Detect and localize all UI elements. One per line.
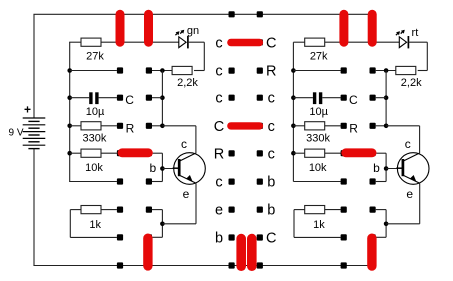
- svg-text:C: C: [266, 231, 276, 247]
- wire 10k row right: [293, 152, 304, 154]
- svg-text:c: c: [215, 175, 222, 191]
- svg-text:rt: rt: [412, 27, 419, 39]
- wire 1k left U right: [294, 210, 341, 238]
- node collector corner: [160, 124, 165, 129]
- contact square rail col1 left: [117, 262, 123, 268]
- wire 2k2 right stub right: [418, 70, 428, 72]
- contact square top rail mid-left: [229, 11, 235, 17]
- wire base vertical net right: [385, 153, 387, 181]
- contact square bottom col1 left: [117, 234, 123, 240]
- jumper wire mid bottom 1: [236, 239, 246, 267]
- node label mid-left row1 c: [215, 35, 222, 51]
- contact square top rail mid-right: [257, 11, 263, 17]
- label 10u right: [309, 106, 328, 118]
- contact square mid col2 row5: [257, 150, 263, 156]
- node collector corner right: [384, 124, 389, 129]
- wire 10k to jumper right: [325, 152, 346, 154]
- node right bus junctions: [291, 68, 296, 155]
- svg-text:2,2k: 2,2k: [401, 77, 422, 89]
- wire 10u row right: [293, 97, 313, 99]
- contact square R row col1 right: [341, 123, 347, 129]
- contact square row-c col2 left: [146, 67, 152, 73]
- label 10k: [85, 162, 103, 174]
- wire LED cathode drop: [203, 42, 205, 70]
- node label mid-right row3 c: [268, 91, 275, 107]
- wire rail to b-row square right: [293, 181, 340, 183]
- wire LED cathode to drop: [188, 41, 204, 43]
- node label mid-left row5 R: [214, 146, 224, 162]
- svg-text:27k: 27k: [310, 51, 328, 63]
- node base junction right: [384, 166, 389, 171]
- wire cap col2 to vertical: [152, 97, 162, 99]
- node cap junction right: [384, 95, 389, 100]
- resistor R5 1k: [81, 206, 101, 214]
- node base junction: [160, 166, 165, 171]
- capacitor C2 10u plates: [315, 92, 321, 104]
- contact square e-row col1 left: [117, 207, 123, 213]
- contact square R row col2 right: [370, 123, 376, 129]
- jumper wire mid row1: [231, 39, 260, 46]
- jumper wire bottom left: [143, 238, 152, 266]
- contact square e-row col2 left: [146, 207, 152, 213]
- wire 10k to jumper: [101, 152, 122, 154]
- node label mid-right row4 c: [268, 119, 275, 135]
- jumper wire top-left 2: [144, 14, 153, 42]
- label rt: [412, 27, 419, 39]
- resistor R10 1k: [305, 206, 325, 214]
- svg-text:b: b: [373, 161, 380, 175]
- contact square row-c col2 right: [370, 67, 376, 73]
- wire base vertical net: [161, 153, 163, 181]
- contact square mid col2 row1: [257, 39, 263, 45]
- contact square R row col2 left: [146, 123, 152, 129]
- transistor Q1: [173, 153, 206, 185]
- wire 2k2 right stub: [194, 70, 204, 72]
- wire 1k left U: [70, 210, 117, 238]
- contact square mid col2 row8: [257, 234, 263, 240]
- wire top +9V rail: [33, 13, 372, 15]
- label e left transistor: [183, 187, 190, 201]
- wire collector link right: [386, 126, 420, 154]
- svg-text:e: e: [215, 203, 223, 219]
- svg-text:10µ: 10µ: [309, 106, 328, 118]
- svg-text:c: c: [215, 35, 222, 51]
- wire bottom 0V rail: [33, 265, 371, 267]
- LED D1 green: [175, 30, 188, 49]
- contact square cap col2 right: [370, 95, 376, 101]
- jumper wire base right: [346, 148, 372, 157]
- contact square row-c col1 left: [117, 67, 123, 73]
- contact square bottom col2 right: [370, 234, 376, 240]
- svg-text:R: R: [126, 122, 135, 136]
- wire row-c to 2k2: [152, 70, 172, 72]
- wire 27k row left: [69, 41, 81, 43]
- svg-text:C: C: [349, 93, 358, 107]
- wire row-c right segment: [293, 70, 340, 72]
- wire collector link to transistor: [162, 126, 196, 154]
- contact square rail col2 right: [370, 262, 376, 268]
- contact square mid col1 row7: [229, 207, 235, 213]
- resistor R8 330k: [305, 122, 325, 130]
- wire row-c to 2k2 right: [376, 70, 396, 72]
- wire hook to bottom jumper right: [376, 236, 386, 238]
- label b right transistor: [373, 161, 380, 175]
- svg-text:c: c: [405, 137, 411, 151]
- label 10k right: [309, 162, 327, 174]
- wire right vertical bus: [292, 42, 294, 181]
- svg-text:10k: 10k: [309, 162, 327, 174]
- jumper wire mid bottom 2: [247, 239, 257, 267]
- label 330k right: [306, 133, 330, 145]
- contact square R row col1 left: [117, 123, 123, 129]
- svg-text:330k: 330k: [82, 133, 106, 145]
- label 1k: [89, 219, 101, 231]
- wire collector vertical net: [161, 71, 163, 126]
- node collector net junction: [160, 68, 165, 73]
- contact square 10k col2 right: [370, 150, 376, 156]
- contact square cap col1 right: [341, 95, 347, 101]
- svg-text:C: C: [266, 35, 276, 51]
- wire e-row col2 to vertical: [152, 209, 162, 211]
- node label mid-right row5 c: [268, 146, 275, 162]
- node bus-27k junction: [67, 68, 72, 155]
- wire row-c left segment: [70, 70, 117, 72]
- node label mid-left row6 c: [215, 175, 222, 191]
- node label mid-right row8 C: [266, 231, 276, 247]
- contact square mid col2 row6: [257, 179, 263, 185]
- svg-text:9 V: 9 V: [8, 128, 23, 139]
- resistor R3 330k: [81, 122, 101, 130]
- node cap junction: [160, 95, 165, 100]
- jumper wire top-left 1: [116, 14, 125, 42]
- wire emitter chain vertical: [161, 210, 163, 238]
- node collector net junction right: [384, 68, 389, 73]
- node label mid-right row7 b: [267, 203, 275, 219]
- capacitor C1 10u plates: [91, 92, 97, 104]
- contact square cap col2 left: [146, 95, 152, 101]
- svg-text:2,2k: 2,2k: [177, 77, 198, 89]
- node label mid-left row4 C: [214, 119, 224, 135]
- svg-text:b: b: [267, 175, 275, 191]
- wire 1k to square right: [325, 209, 341, 211]
- jumper wire bottom right: [367, 238, 376, 266]
- svg-text:e: e: [183, 187, 190, 201]
- svg-text:c: c: [181, 137, 187, 151]
- svg-text:27k: 27k: [86, 51, 104, 63]
- wire LED cathode drop right: [426, 42, 428, 70]
- node label mid-left row8 b: [215, 231, 223, 247]
- contact square b-row col1 left: [117, 178, 123, 184]
- wire R col2 to vertical: [152, 125, 162, 127]
- node emitter junction: [160, 222, 165, 227]
- svg-text:b: b: [215, 231, 223, 247]
- resistor R6 27k: [305, 38, 325, 46]
- wire e-row col2 to vertical right: [376, 209, 386, 211]
- wire 10u to square: [99, 97, 117, 99]
- contact square bottom col2 left: [146, 234, 152, 240]
- label 2,2k right: [401, 77, 422, 89]
- wire cap col2 to vertical right: [376, 97, 386, 99]
- wire 1k to square: [101, 209, 117, 211]
- wire rail to b-row square: [69, 181, 117, 183]
- label 330k: [82, 133, 106, 145]
- contact square bottom rail mid-right: [257, 262, 263, 268]
- svg-text:b: b: [149, 161, 156, 175]
- svg-text:R: R: [349, 122, 358, 136]
- wire b-row col2 to vertical right: [376, 181, 386, 183]
- svg-text:10k: 10k: [85, 162, 103, 174]
- node label mid-right row6 b: [267, 175, 275, 191]
- wire 27k to LED anode: [101, 41, 179, 43]
- wire 27k to LED anode right: [325, 41, 400, 43]
- contact square 10k col1 left: [117, 150, 123, 156]
- battery B1 cell stack: [23, 118, 46, 149]
- contact square rail col2 left: [146, 262, 152, 268]
- resistor R7 2,2k: [396, 66, 416, 74]
- svg-text:+: +: [24, 102, 31, 116]
- label 2,2k: [177, 77, 198, 89]
- battery B1 9V, positive wire: [33, 14, 35, 117]
- wire emitter vertical: [195, 183, 197, 224]
- contact square mid col1 row4: [229, 123, 235, 129]
- contact square b-row col2 left: [146, 178, 152, 184]
- wire 27k row right: [293, 41, 304, 43]
- label C cap row left: [125, 93, 134, 107]
- node emitter junction right: [384, 222, 389, 227]
- contact square e-row col2 right: [370, 207, 376, 213]
- svg-text:c: c: [215, 91, 222, 107]
- svg-text:b: b: [267, 203, 275, 219]
- wire jumper to base vertical: [153, 152, 163, 154]
- wire left vertical bus: [69, 42, 71, 181]
- contact square rail col1 right: [341, 262, 347, 268]
- contact square b-row col1 right: [341, 178, 347, 184]
- contact square mid col1 row2: [229, 68, 235, 74]
- svg-text:330k: 330k: [306, 133, 330, 145]
- svg-text:C: C: [214, 119, 224, 135]
- wire LED cathode to drop right: [408, 41, 427, 43]
- wire emitter link: [162, 223, 196, 225]
- wire emitter chain vertical right: [385, 210, 387, 238]
- svg-text:10µ: 10µ: [86, 106, 105, 118]
- wire collector vertical net right: [385, 71, 387, 126]
- svg-text:1k: 1k: [313, 219, 325, 231]
- contact square cap col1 left: [117, 95, 123, 101]
- node label mid-left row2 c: [215, 64, 222, 80]
- contact square mid col2 row7: [257, 207, 263, 213]
- label R row left: [126, 122, 135, 136]
- wire R col2 to vertical right: [376, 125, 386, 127]
- wire base lead: [162, 168, 179, 170]
- jumper wire top-right 1: [339, 14, 348, 42]
- jumper wire base left: [122, 148, 148, 157]
- node label mid-left row3 c: [215, 91, 222, 107]
- contact square b-row col2 right: [370, 178, 376, 184]
- wire 330k to square: [101, 125, 117, 127]
- label c right transistor: [405, 137, 411, 151]
- battery plus label: [24, 102, 31, 116]
- LED D2 red: [396, 30, 409, 49]
- battery value 9 V: [8, 128, 23, 139]
- wire base lead right: [386, 168, 403, 170]
- node label mid-right row2 R: [266, 64, 276, 80]
- svg-text:1k: 1k: [89, 219, 101, 231]
- svg-text:c: c: [268, 119, 275, 135]
- contact square 10k col2 left: [146, 150, 152, 156]
- contact square mid col2 row2: [257, 68, 263, 74]
- wire 10u to square right: [322, 97, 340, 99]
- contact square mid col1 row3: [229, 95, 235, 101]
- wire emitter link right: [386, 223, 420, 225]
- svg-text:R: R: [214, 146, 224, 162]
- label 10u: [86, 106, 105, 118]
- contact square mid col1 row8: [229, 234, 235, 240]
- contact square row-c col1 right: [341, 67, 347, 73]
- svg-text:c: c: [268, 146, 275, 162]
- contact square mid col2 row4: [257, 123, 263, 129]
- label c left transistor: [181, 137, 187, 151]
- label e right transistor: [406, 187, 413, 201]
- resistor R2 2,2k: [172, 66, 192, 74]
- contact square 10k col1 right: [341, 150, 347, 156]
- node label mid-left row7 e: [215, 203, 223, 219]
- wire 10k row left: [70, 152, 81, 154]
- resistor R1 27k: [81, 38, 101, 46]
- wire 330k to square right: [325, 125, 341, 127]
- wire emitter vertical right: [419, 183, 421, 224]
- label 27k: [86, 51, 104, 63]
- label gn: [187, 25, 199, 37]
- label 27k right: [310, 51, 328, 63]
- svg-text:c: c: [268, 91, 275, 107]
- jumper wire top-right 2: [368, 14, 377, 42]
- label 1k right: [313, 219, 325, 231]
- transistor Q2: [396, 153, 429, 185]
- contact square mid col2 row3: [257, 95, 263, 101]
- wire jumper to base vertical right: [376, 152, 386, 154]
- wire 10u row left: [70, 97, 90, 99]
- wire b-row col2 to vertical: [152, 181, 162, 183]
- label b left transistor: [149, 161, 156, 175]
- svg-text:e: e: [406, 187, 413, 201]
- contact square mid col1 row1: [229, 39, 235, 45]
- svg-text:c: c: [215, 64, 222, 80]
- jumper wire mid row4: [231, 122, 260, 129]
- label C cap row right: [349, 93, 358, 107]
- resistor R9 10k: [305, 149, 325, 157]
- wire 330k row left: [70, 125, 81, 127]
- contact square bottom rail mid-left: [229, 262, 235, 268]
- node label mid-right row1 C: [266, 35, 276, 51]
- contact square mid col1 row6: [229, 179, 235, 185]
- battery B1 negative wire: [33, 149, 35, 266]
- contact square e-row col1 right: [341, 207, 347, 213]
- wire hook to bottom jumper: [153, 236, 163, 238]
- contact square mid col1 row5: [229, 150, 235, 156]
- resistor R4 10k: [81, 149, 101, 157]
- svg-text:C: C: [125, 93, 134, 107]
- contact square bottom col1 right: [341, 234, 347, 240]
- svg-text:R: R: [266, 64, 276, 80]
- label R row right: [349, 122, 358, 136]
- svg-text:gn: gn: [187, 25, 199, 37]
- wire 330k row right: [293, 125, 304, 127]
